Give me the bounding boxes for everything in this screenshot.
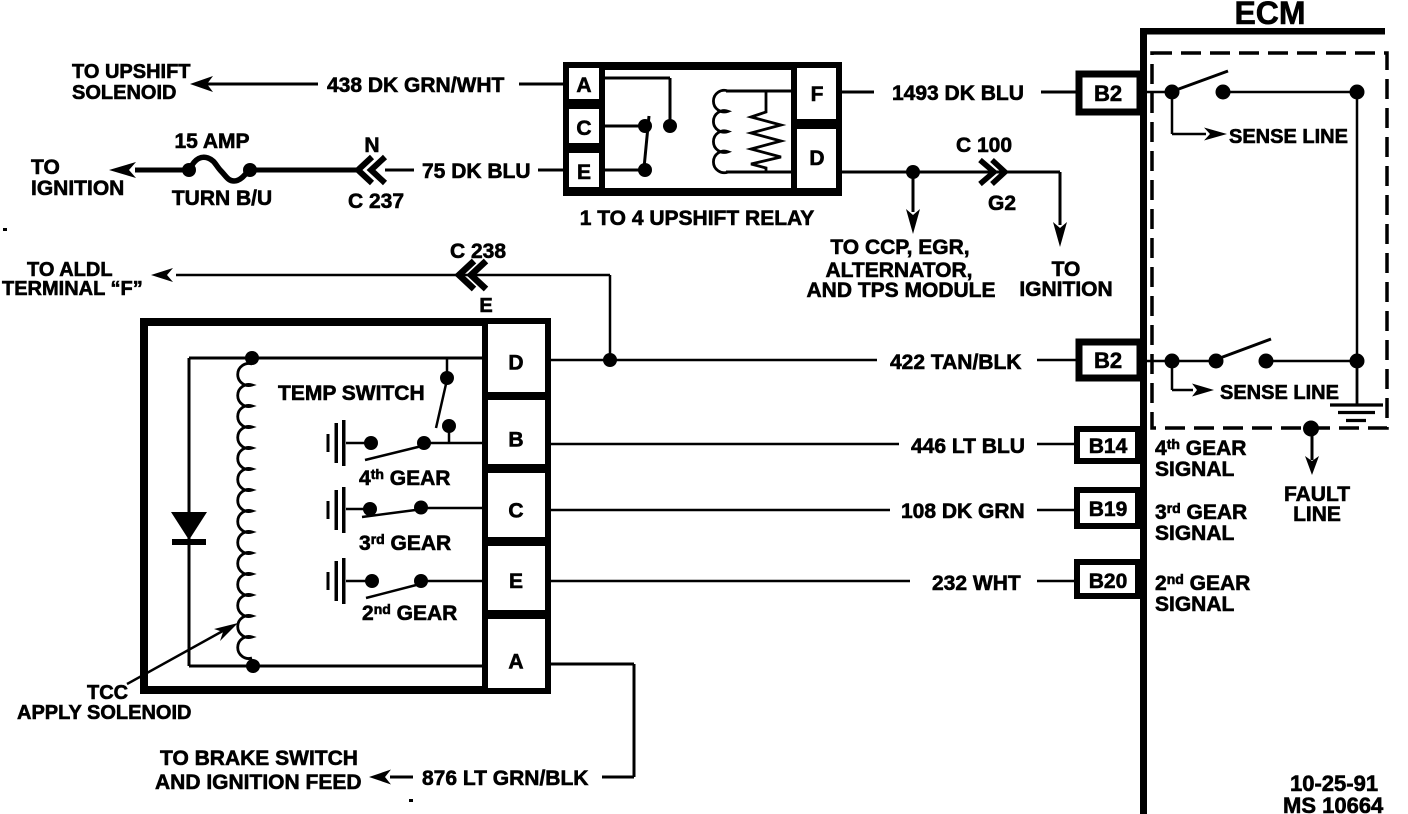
svg-text:N: N bbox=[364, 134, 379, 157]
svg-text:75 DK BLU: 75 DK BLU bbox=[422, 160, 531, 183]
svg-text:D: D bbox=[508, 352, 523, 375]
svg-text:IGNITION: IGNITION bbox=[1019, 278, 1112, 301]
svg-text:E: E bbox=[509, 570, 523, 593]
svg-text:108 DK GRN: 108 DK GRN bbox=[901, 500, 1025, 523]
svg-text:B20: B20 bbox=[1089, 570, 1128, 593]
svg-text:1493 DK BLU: 1493 DK BLU bbox=[892, 82, 1024, 105]
svg-text:ECM: ECM bbox=[1234, 0, 1305, 31]
svg-text:F: F bbox=[811, 83, 824, 106]
svg-text:TO: TO bbox=[31, 156, 60, 179]
svg-text:446 LT BLU: 446 LT BLU bbox=[911, 435, 1025, 458]
svg-text:G2: G2 bbox=[988, 192, 1016, 215]
svg-text:TO BRAKE SWITCH: TO BRAKE SWITCH bbox=[160, 747, 358, 770]
svg-text:B19: B19 bbox=[1089, 498, 1128, 521]
svg-text:B2: B2 bbox=[1094, 348, 1122, 373]
svg-text:SENSE LINE: SENSE LINE bbox=[1220, 382, 1339, 404]
svg-text:A: A bbox=[576, 74, 591, 97]
svg-text:TO CCP, EGR,: TO CCP, EGR, bbox=[830, 236, 969, 259]
svg-text:B: B bbox=[508, 429, 523, 452]
svg-text:TURN B/U: TURN B/U bbox=[172, 187, 272, 210]
svg-text:AND TPS MODULE: AND TPS MODULE bbox=[807, 279, 996, 302]
svg-text:232 WHT: 232 WHT bbox=[932, 572, 1021, 595]
svg-text:B2: B2 bbox=[1094, 81, 1122, 106]
svg-text:E: E bbox=[577, 161, 591, 184]
svg-text:TCC: TCC bbox=[87, 682, 128, 704]
svg-text:TO UPSHIFT: TO UPSHIFT bbox=[72, 61, 191, 83]
svg-text:C 238: C 238 bbox=[450, 240, 506, 263]
svg-text:E: E bbox=[479, 295, 492, 317]
svg-text:SENSE LINE: SENSE LINE bbox=[1229, 126, 1348, 148]
svg-text:D: D bbox=[809, 147, 824, 170]
svg-text:LINE: LINE bbox=[1293, 503, 1341, 526]
svg-text:C 237: C 237 bbox=[348, 190, 404, 213]
svg-text:C: C bbox=[508, 500, 523, 523]
svg-text:TEMP SWITCH: TEMP SWITCH bbox=[278, 382, 425, 405]
svg-text:1 TO 4 UPSHIFT RELAY: 1 TO 4 UPSHIFT RELAY bbox=[580, 207, 815, 230]
svg-text:SOLENOID: SOLENOID bbox=[72, 82, 176, 104]
svg-text:IGNITION: IGNITION bbox=[31, 177, 124, 200]
svg-text:SIGNAL: SIGNAL bbox=[1155, 458, 1235, 481]
svg-text:AND IGNITION FEED: AND IGNITION FEED bbox=[155, 771, 362, 794]
svg-text:438 DK GRN/WHT: 438 DK GRN/WHT bbox=[327, 74, 505, 97]
svg-text:TERMINAL “F”: TERMINAL “F” bbox=[2, 278, 143, 300]
svg-text:APPLY SOLENOID: APPLY SOLENOID bbox=[17, 702, 192, 724]
svg-text:422 TAN/BLK: 422 TAN/BLK bbox=[890, 351, 1021, 374]
svg-text:C 100: C 100 bbox=[956, 134, 1012, 157]
svg-text:15 AMP: 15 AMP bbox=[174, 130, 249, 153]
svg-text:876 LT GRN/BLK: 876 LT GRN/BLK bbox=[422, 767, 588, 790]
svg-text:SIGNAL: SIGNAL bbox=[1155, 522, 1235, 545]
svg-text:C: C bbox=[576, 117, 591, 140]
svg-text:MS 10664: MS 10664 bbox=[1283, 793, 1384, 814]
svg-text:SIGNAL: SIGNAL bbox=[1155, 593, 1235, 616]
svg-text:A: A bbox=[508, 651, 523, 674]
svg-text:B14: B14 bbox=[1089, 435, 1128, 458]
